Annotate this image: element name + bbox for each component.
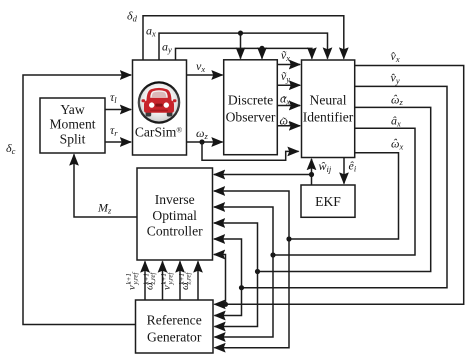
block Yaw Moment Split (40, 98, 105, 153)
wire a_y branch to observer (261, 48, 263, 58)
block Discrete Observer (224, 60, 278, 155)
wire alphatilde_x observer to identifier (277, 105, 300, 107)
wire vhat_y branch to controller (214, 239, 242, 288)
junction omegahat_z (255, 269, 260, 274)
junction vhat_y (239, 285, 244, 290)
svg-text:Yaw: Yaw (60, 102, 84, 117)
junction omegahat_x (286, 236, 291, 241)
block Neural Identifier (302, 60, 355, 158)
wire omegahat_x branch to reference generator (214, 239, 289, 348)
CarSim logo badge (138, 81, 181, 124)
wire what_ij branch to controller (214, 174, 312, 176)
label omega_zref k+1 second (178, 271, 192, 290)
svg-text:Discrete: Discrete (228, 93, 273, 108)
block EKF (301, 185, 355, 217)
svg-text:z,ref: z,ref (149, 271, 157, 285)
label v_yref k+1 (125, 271, 139, 290)
wire tau_r (105, 141, 131, 143)
wire omegahat_z feedback loop (258, 107, 431, 271)
wire delta_d top (143, 16, 344, 60)
wire omega_z branch to identifier (202, 142, 299, 160)
svg-text:v: v (127, 285, 138, 290)
svg-text:y,ref: y,ref (166, 271, 174, 285)
block Reference Generator (136, 300, 214, 353)
label omega_zref k+1 (143, 271, 157, 290)
wire omegahat_x branch to controller (214, 191, 289, 239)
wire ahat_x branch to controller (214, 207, 273, 255)
wire vhat_x feedback loop (214, 66, 463, 305)
wire delta_c feedback (23, 75, 136, 325)
wire omega_zref k+1 second to controller (197, 261, 199, 300)
wire omegahat_x feedback loop (289, 153, 399, 239)
wire v_x CarSim to observer (187, 74, 223, 76)
wire vhat_x branch to controller (214, 255, 226, 305)
svg-text:Moment: Moment (49, 117, 95, 132)
car icon (142, 88, 177, 117)
wire vhat_y branch to reference generator (214, 288, 241, 316)
wire omegatilde_x observer to identifier (277, 125, 300, 127)
svg-text:Split: Split (60, 132, 86, 147)
junction vhat_x (223, 302, 228, 307)
svg-text:z,ref: z,ref (184, 271, 192, 285)
wire a_x branch to observer (240, 33, 242, 59)
svg-text:Controller: Controller (147, 224, 203, 239)
wire ehat_i identifier to EKF (343, 158, 345, 184)
block CarSim (133, 60, 187, 155)
wire vhat_y feedback loop (242, 86, 448, 287)
wire M_z (74, 154, 137, 217)
svg-text:CarSim®: CarSim® (135, 125, 183, 140)
svg-text:Reference: Reference (147, 313, 202, 328)
svg-text:y,ref: y,ref (131, 271, 139, 285)
svg-text:Generator: Generator (147, 330, 202, 345)
wire ahat_x branch to reference generator (214, 255, 273, 337)
junction a_x (238, 30, 243, 35)
wire omega_z CarSim to observer (187, 141, 223, 143)
svg-text:Identifier: Identifier (303, 110, 354, 125)
wire what_ij EKF to identifier (311, 159, 313, 185)
svg-text:Inverse: Inverse (155, 192, 195, 207)
svg-text:EKF: EKF (315, 194, 341, 209)
wire v_yref k+1 to controller (144, 261, 146, 300)
wire a_y (176, 48, 312, 60)
wire a_x (159, 33, 328, 60)
wire v_yref k+1 second to controller (179, 261, 181, 300)
svg-text:Optimal: Optimal (152, 208, 197, 223)
label v_yref k+1 second (160, 271, 174, 290)
junction a_y (259, 46, 264, 51)
junction ahat_x (270, 252, 275, 257)
wire omegahat_z branch to controller (214, 223, 258, 272)
svg-text:v: v (162, 285, 173, 290)
junction what_ij (309, 172, 314, 177)
wire tau_l (105, 109, 131, 111)
wire ahat_x feedback loop (273, 128, 415, 255)
svg-text:Neural: Neural (310, 93, 347, 108)
wire vtilde_y observer to identifier (277, 84, 300, 86)
junction omega_z (199, 139, 204, 144)
wire vtilde_x observer to identifier (277, 64, 300, 66)
block Inverse Optimal Controller (137, 168, 213, 260)
wire omegahat_z branch to reference generator (214, 272, 257, 327)
svg-text:Observer: Observer (226, 110, 276, 125)
wire omega_zref k+1 to controller (162, 261, 164, 300)
